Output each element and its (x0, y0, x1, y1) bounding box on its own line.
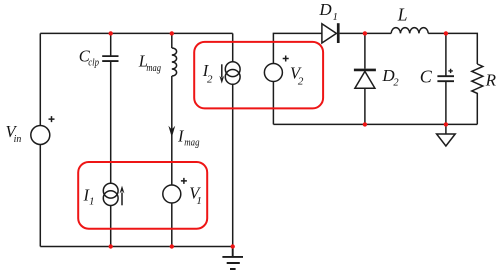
plus sign C (448, 69, 452, 73)
plus sign Vin (49, 116, 55, 122)
node dot Lmag bottom (170, 244, 174, 248)
capacitor C plates (437, 76, 454, 81)
node dot Cclp top (109, 31, 113, 35)
diode D1 (322, 24, 337, 43)
source Vin circle (31, 126, 50, 145)
svg-text:Vin: Vin (6, 122, 22, 145)
svg-text:Lmag: Lmag (138, 52, 161, 75)
wire: bottom rail left section (40, 246, 232, 248)
svg-text:L: L (397, 5, 408, 25)
ground right (445, 124, 447, 134)
arrow I2 down (221, 64, 223, 77)
svg-text:Imag: Imag (177, 126, 200, 148)
svg-text:Cclp: Cclp (79, 47, 99, 69)
red box around I2 V2 (194, 42, 323, 109)
svg-text:I1: I1 (83, 185, 95, 207)
node dot Lmag top (170, 31, 174, 35)
red box around I1 V1 (78, 162, 207, 229)
node dot ground left (231, 244, 235, 248)
wire: V2 bottom lead (272, 82, 274, 125)
wire: V2 top lead (273, 33, 322, 63)
svg-text:D1: D1 (318, 0, 337, 23)
wire: I2 branch vertical (232, 33, 234, 246)
node dot D2 bottom (363, 122, 367, 126)
wire: C branch (445, 33, 447, 124)
svg-text:C: C (420, 67, 433, 87)
svg-text:D2: D2 (381, 66, 399, 88)
node dot Cclp bottom (109, 244, 113, 248)
svg-text:V1: V1 (189, 184, 202, 207)
svg-text:R: R (485, 70, 497, 89)
capacitor Cclp plates (102, 56, 118, 61)
resistor R zigzag (472, 64, 483, 124)
diode D2 bar (354, 69, 376, 72)
node dot ground right (444, 122, 448, 126)
node dot D2 top (363, 31, 367, 35)
wire: bottom rail right section (273, 123, 477, 125)
current source I1 circles (103, 183, 118, 198)
current source I2 circles (225, 62, 240, 77)
arrow Imag head (168, 126, 175, 138)
arrow I1 up (121, 193, 123, 206)
wire: D1 cathode to L (340, 32, 392, 34)
svg-text:I2: I2 (202, 61, 213, 86)
wire: Cclp branch (110, 33, 112, 246)
wire: Vin branch vertical (39, 33, 41, 246)
inductor L coil (391, 28, 428, 34)
svg-text:V2: V2 (290, 63, 304, 87)
wire: D2 branch (364, 33, 366, 124)
node dot C top (444, 31, 448, 35)
inductor Lmag coil (172, 48, 177, 76)
plus sign V2 (283, 56, 289, 62)
wire: top rail left section (40, 32, 232, 34)
ground left (222, 247, 243, 270)
wire: L to top-right corner (428, 33, 477, 64)
plus sign V1 (181, 178, 187, 184)
source V1 circle (163, 185, 181, 203)
diode D2 triangle (355, 71, 375, 88)
source V2 circle (264, 64, 282, 82)
wire: Lmag branch (171, 33, 173, 246)
